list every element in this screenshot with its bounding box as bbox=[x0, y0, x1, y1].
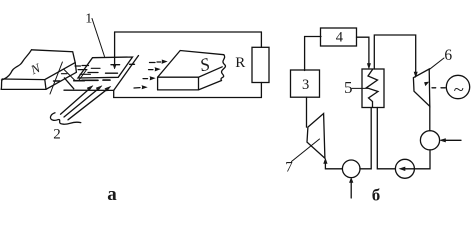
svg-text:1: 1 bbox=[85, 12, 92, 27]
circuit wire top bbox=[115, 31, 262, 33]
svg-text:2: 2 bbox=[53, 127, 61, 143]
electrode plate top side edge dashes bbox=[82, 79, 110, 81]
pump P2 bbox=[395, 159, 414, 178]
pipe P1 to compressor bbox=[325, 163, 342, 169]
magnet S bbox=[158, 51, 226, 90]
svg-text:б: б bbox=[372, 186, 381, 205]
wavy cut line over jets bbox=[50, 113, 80, 124]
steam arrow inside turbine bbox=[425, 82, 429, 86]
label 6 bbox=[430, 47, 453, 69]
plus charge marks between N pole and channel bbox=[50, 62, 100, 94]
svg-text:S: S bbox=[198, 54, 212, 76]
pipe P3 to P2 bbox=[414, 150, 430, 169]
wire to bottom electrode bbox=[113, 90, 115, 97]
generator shaft dashed bbox=[432, 87, 445, 89]
arrow into compressor bbox=[324, 159, 327, 164]
steam generator box 5 bbox=[362, 69, 384, 108]
turbine exhaust pipe bbox=[429, 106, 431, 130]
svg-text:3: 3 bbox=[302, 77, 309, 93]
svg-text:а: а bbox=[107, 184, 117, 205]
box 3 bbox=[291, 70, 320, 97]
gas jet arrows bbox=[61, 86, 111, 120]
svg-text:7: 7 bbox=[285, 160, 293, 176]
svg-text:5: 5 bbox=[344, 78, 353, 97]
makeup arrow into P1 bbox=[350, 178, 353, 198]
label 1 bbox=[85, 12, 104, 57]
electrode plate top (1) bbox=[78, 57, 133, 78]
wire box3 to compressor bbox=[306, 97, 308, 127]
svg-text:~: ~ bbox=[454, 79, 464, 100]
magnetic field dashed arrows toward S pole bbox=[134, 60, 167, 89]
magnet N bbox=[1, 50, 76, 90]
svg-text:4: 4 bbox=[336, 30, 344, 46]
pipe P2 to riser bbox=[377, 108, 395, 169]
heating coil zigzag bbox=[367, 70, 379, 108]
pump P1 bbox=[342, 160, 360, 178]
circuit wire right lower bbox=[260, 83, 262, 98]
generator ~ bbox=[446, 75, 469, 100]
wire box4 to box3 bbox=[305, 37, 321, 71]
svg-text:6: 6 bbox=[444, 47, 452, 64]
box 4 bbox=[321, 28, 357, 46]
compressor 7 bbox=[307, 114, 325, 159]
label 5 bbox=[344, 78, 368, 97]
electrode plate bottom (2) bbox=[64, 56, 139, 91]
label 7 bbox=[285, 139, 319, 176]
pump P3 bbox=[420, 131, 439, 150]
svg-text:R: R bbox=[235, 55, 245, 71]
steam pipe to turbine bbox=[374, 35, 417, 77]
svg-text:N: N bbox=[28, 60, 44, 78]
minus dashes on top plate bbox=[82, 64, 135, 73]
resistor R bbox=[252, 47, 269, 82]
circuit wire right upper bbox=[260, 32, 262, 47]
wire from top electrode bbox=[113, 32, 116, 69]
condensate pipe left bbox=[360, 108, 371, 169]
feed arrow into P3 bbox=[440, 139, 461, 142]
circuit wire bottom bbox=[114, 97, 262, 99]
wire box4 to heater bbox=[357, 37, 371, 68]
turbine 6 bbox=[413, 69, 429, 106]
